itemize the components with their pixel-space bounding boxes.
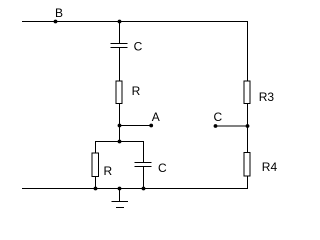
wire: bottom horizontal bus bbox=[22, 188, 248, 190]
wire: right riser from top corner down to R3 bbox=[247, 22, 249, 82]
resistor R4 body bbox=[244, 153, 250, 177]
svg-text:B: B bbox=[55, 6, 63, 20]
wire: bottom capacitor C to bottom bus bbox=[143, 167, 145, 190]
svg-text:R4: R4 bbox=[262, 160, 278, 174]
ground symbol bars bbox=[112, 201, 129, 203]
node C terminal dot bbox=[214, 124, 218, 128]
resistor R (upper) body bbox=[116, 81, 122, 104]
wire: top horizontal bus B to right corner bbox=[22, 21, 248, 23]
wire: resistor R bottom through node A to mid junction bbox=[119, 104, 121, 142]
svg-text:R: R bbox=[104, 164, 113, 178]
svg-text:A: A bbox=[152, 110, 160, 124]
wire: junction down to R4 top bbox=[247, 126, 249, 153]
wire: left drop to bottom resistor R bbox=[95, 142, 97, 154]
wire: R4 bottom lead to bottom bus bbox=[247, 176, 249, 189]
wire: bottom resistor R to bottom bus bbox=[95, 177, 97, 190]
junction: top bus / capacitor branch bbox=[118, 20, 122, 24]
junction: bottom bus / lower C bbox=[142, 187, 146, 191]
wire: right drop to bottom capacitor C bbox=[143, 142, 145, 163]
wire: node A stub bbox=[120, 125, 152, 127]
svg-text:C: C bbox=[214, 110, 223, 124]
junction: bottom bus / lower R bbox=[94, 187, 98, 191]
node B junction dot bbox=[54, 20, 58, 24]
wire: node C stub bbox=[216, 125, 248, 127]
svg-text:C: C bbox=[134, 39, 143, 53]
junction: R3 / R4 / node C bbox=[246, 124, 250, 128]
svg-text:C: C bbox=[158, 161, 167, 175]
wire: top junction down to capacitor C top plate bbox=[119, 22, 121, 44]
wire: capacitor C bottom plate to resistor R top bbox=[119, 48, 121, 82]
capacitor C (upper) plates bbox=[111, 43, 128, 45]
resistor R3 body bbox=[244, 81, 250, 104]
node A terminal dot bbox=[149, 124, 153, 128]
junction: mid horizontal split bbox=[118, 140, 122, 144]
wire: R3 bottom to junction with node C bbox=[247, 104, 249, 127]
svg-text:R: R bbox=[132, 84, 141, 98]
svg-text:R3: R3 bbox=[259, 90, 275, 104]
resistor R (lower) body bbox=[92, 153, 99, 177]
junction: bottom bus / ground bbox=[118, 187, 122, 191]
capacitor C (lower) plates bbox=[135, 162, 152, 164]
wire: mid horizontal between R and C branch tops bbox=[95, 141, 144, 143]
wire: ground stub bbox=[119, 189, 121, 202]
junction: node A on vertical branch bbox=[118, 124, 122, 128]
